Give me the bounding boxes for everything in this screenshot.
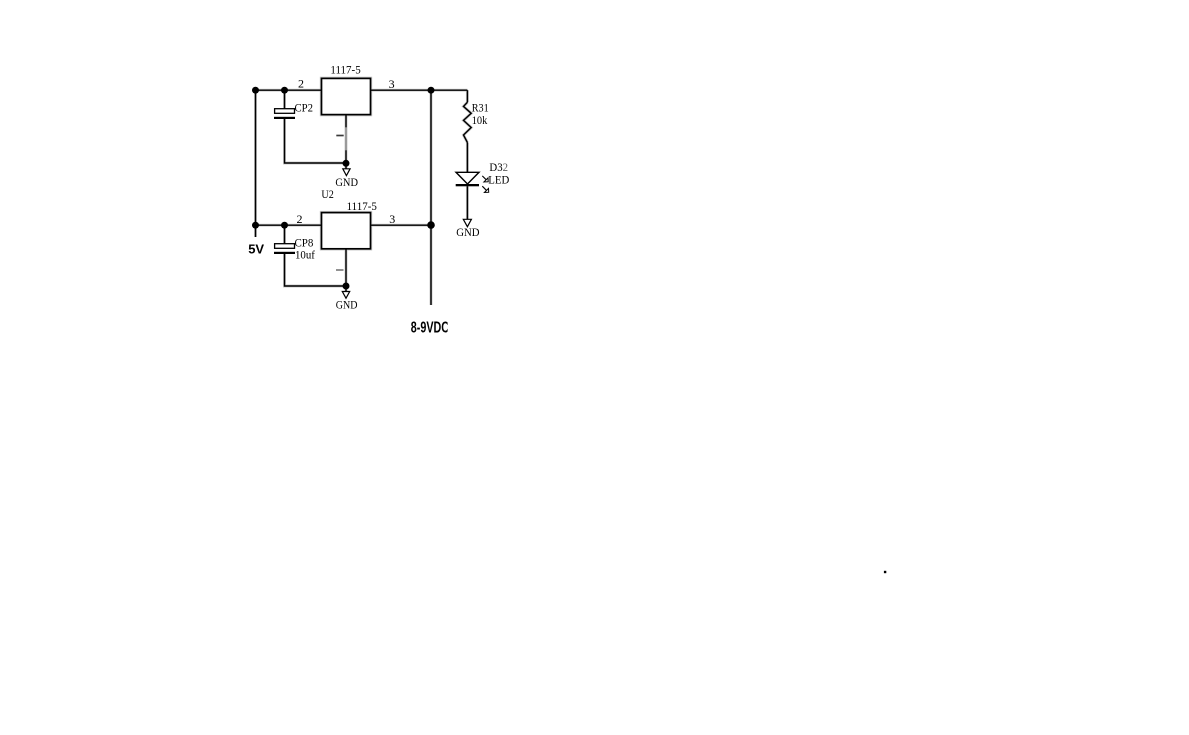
svg-text:U2: U2 [321,187,333,201]
svg-text:3: 3 [389,212,395,226]
svg-text:5V: 5V [248,241,264,256]
svg-text:LED: LED [488,173,509,187]
svg-text:2: 2 [298,77,304,91]
svg-text:1117-5: 1117-5 [347,199,377,213]
svg-text:GND: GND [456,225,480,239]
svg-text:1117-5: 1117-5 [330,62,360,76]
svg-text:10uf: 10uf [295,248,315,262]
svg-text:2: 2 [297,212,303,226]
svg-text:CP2: CP2 [295,100,314,114]
svg-text:GND: GND [335,175,358,189]
svg-text:10k: 10k [472,113,488,127]
svg-text:3: 3 [389,77,395,91]
svg-text:8-9VDC: 8-9VDC [411,319,449,336]
svg-text:GND: GND [336,298,358,312]
